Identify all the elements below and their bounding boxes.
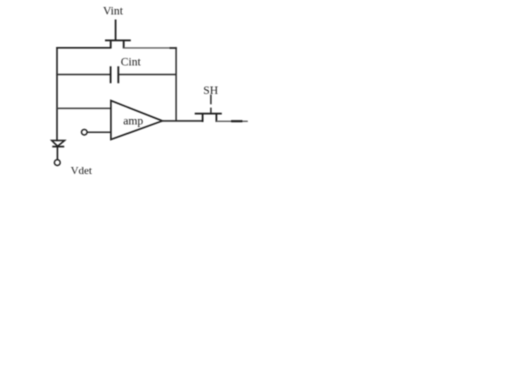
wire: op-amp inverting input (56, 107, 111, 109)
svg-text:amp: amp (123, 114, 143, 127)
transistor M1 gate lead (115, 20, 117, 41)
wire: right-rail top corner (170, 47, 177, 49)
transistor M1 drain stub (123, 40, 125, 48)
wire: left rail vertical (56, 47, 58, 141)
transistor Q2 (SH) gate bar (195, 113, 222, 115)
svg-text:Vdet: Vdet (71, 165, 92, 177)
capacitor Cint left plate (110, 66, 112, 83)
transistor M1 gate bar (105, 39, 131, 41)
wire: op-amp output to SH source (162, 120, 204, 122)
wire: left rail to Cint left plate (56, 74, 110, 76)
photodiode D1 triangle (52, 141, 65, 147)
wire: M1 source to left rail (top feedback) (56, 47, 110, 49)
wire: dark segment on SH output (231, 120, 243, 122)
wire: non-inverting input to op-amp (87, 131, 111, 133)
wire: SH drain output (216, 120, 247, 122)
transistor Q2 (SH) gate lead upper segment (210, 95, 212, 105)
transistor Q2 (SH) drain stub (215, 114, 217, 122)
svg-text:Cint: Cint (121, 55, 142, 68)
wire: M1 drain to right rail (124, 47, 171, 49)
transistor Q2 (SH) gate lead lower segment (210, 108, 212, 114)
transistor Q2 (SH) source stub (202, 114, 204, 122)
photodiode D1 cathode bar (52, 146, 64, 148)
terminal circle Vdet (54, 160, 60, 166)
wire: right rail vertical (175, 47, 177, 121)
svg-text:Vint: Vint (103, 5, 124, 18)
op-amp U1 triangle (111, 101, 162, 140)
wire: diode cathode to Vdet terminal (56, 147, 58, 160)
terminal circle: non-inverting input (82, 129, 88, 135)
transistor M1 source stub (110, 40, 112, 48)
wire: Cint right plate to right rail (118, 74, 176, 76)
capacitor Cint right plate (117, 66, 119, 83)
